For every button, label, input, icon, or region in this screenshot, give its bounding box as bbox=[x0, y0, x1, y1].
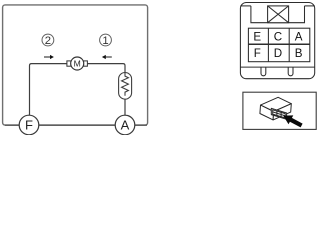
svg-text:E: E bbox=[253, 30, 261, 43]
svg-text:F: F bbox=[25, 118, 33, 133]
svg-text:1: 1 bbox=[102, 35, 108, 47]
svg-text:D: D bbox=[274, 47, 282, 60]
svg-text:C: C bbox=[274, 30, 282, 43]
svg-text:B: B bbox=[295, 47, 303, 60]
svg-text:F: F bbox=[254, 47, 261, 60]
svg-text:M: M bbox=[74, 59, 81, 69]
svg-text:A: A bbox=[121, 118, 130, 133]
svg-text:2: 2 bbox=[45, 35, 51, 47]
svg-text:A: A bbox=[295, 30, 303, 43]
